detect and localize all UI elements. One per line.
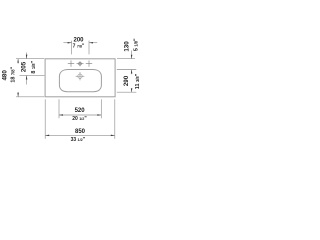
- right dimension 290: [117, 70, 141, 93]
- drain symbol: [76, 72, 85, 80]
- svg-text:200: 200: [73, 37, 84, 43]
- svg-text:850: 850: [75, 129, 86, 135]
- bottom dimension 850: [45, 99, 115, 143]
- svg-text:520: 520: [75, 108, 86, 114]
- left dimension 480: [1, 59, 44, 97]
- left dimension 205: [20, 53, 45, 85]
- svg-text:205: 205: [20, 61, 27, 72]
- tap hole cross middle with circle: [77, 61, 84, 66]
- top dimension 200: [63, 37, 97, 54]
- svg-text:130: 130: [124, 41, 131, 52]
- tap hole cross left: [68, 60, 74, 66]
- tap hole cross right: [86, 60, 92, 66]
- bottom dimension 520: [59, 99, 101, 122]
- svg-text:480: 480: [1, 70, 8, 81]
- washbasin outline top view: [45, 59, 115, 97]
- inner bowl outline: [59, 70, 101, 92]
- svg-text:290: 290: [123, 75, 130, 86]
- right dimension 130: [117, 38, 140, 59]
